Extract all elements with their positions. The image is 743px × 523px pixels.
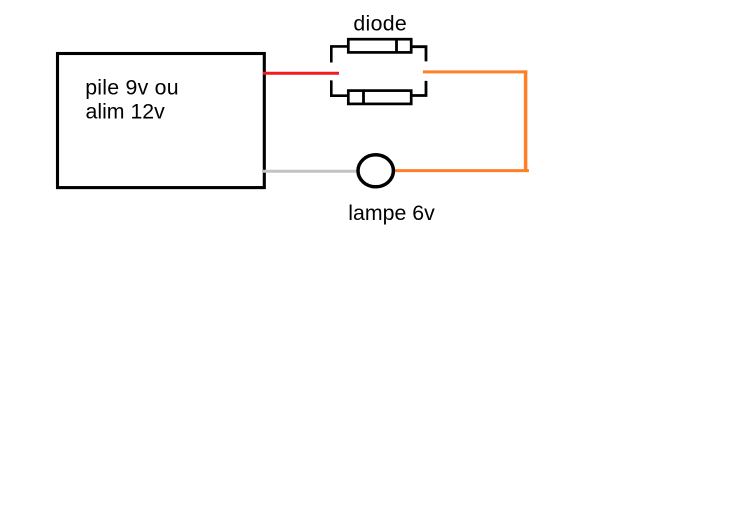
svg-text:alim 12v: alim 12v [86, 99, 166, 123]
wire gray (battery - to lamp) [263, 170, 357, 173]
lamp L1 bulb circle [358, 155, 393, 187]
svg-text:lampe 6v: lampe 6v [348, 201, 435, 225]
wire D1 left lead [331, 46, 347, 62]
diode D2 cathode band [362, 89, 365, 105]
battery B1 box [58, 54, 265, 188]
wire red (battery + to diodes) [263, 72, 339, 75]
diode D1 cathode band [395, 38, 398, 53]
wire D2 left lead [331, 80, 348, 95]
wire D2 right lead [412, 81, 426, 96]
svg-text:diode: diode [353, 11, 407, 35]
diode D2 body (bottom) [348, 91, 411, 104]
wire D1 right lead [412, 47, 426, 62]
svg-text:pile 9v ou: pile 9v ou [85, 75, 179, 99]
wire orange bottom segment (to lamp) [395, 169, 529, 172]
diode D1 body (top) [348, 39, 411, 52]
wire orange vertical segment [524, 70, 528, 171]
wire orange top segment (diodes to right) [423, 70, 527, 73]
